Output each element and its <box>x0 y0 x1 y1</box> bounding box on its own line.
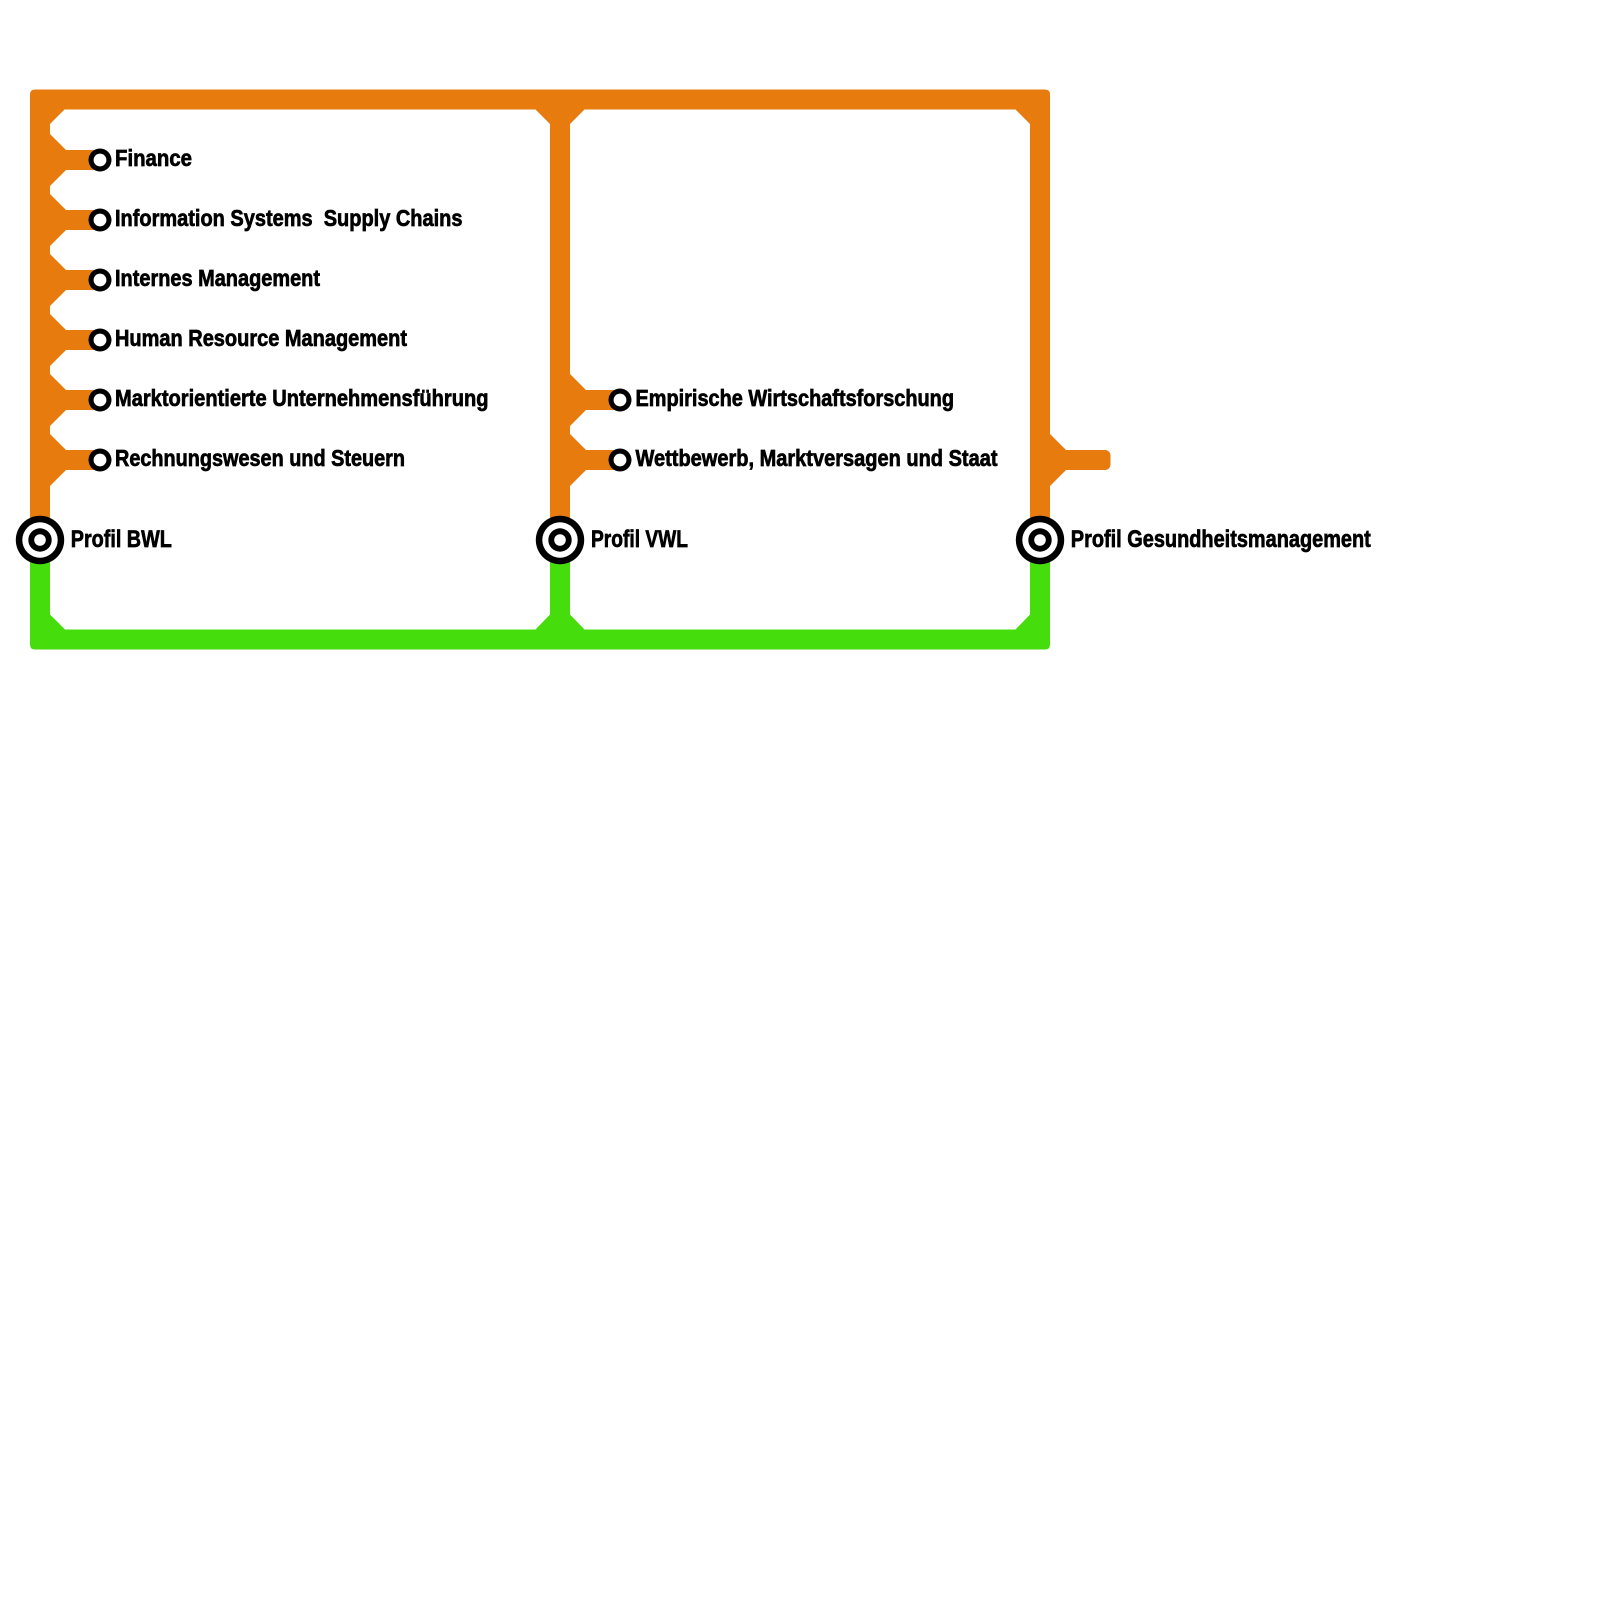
fillet top-right inner corner <box>1015 109 1032 126</box>
green middle vertical <box>550 535 570 635</box>
orange top band <box>30 90 1050 110</box>
stub Internes Management flare <box>49 253 66 307</box>
stub Rechnungswesen bar <box>50 450 100 470</box>
stub Marktorientierte bar <box>50 390 100 410</box>
svg-text:Marktorientierte Unternehmensf: Marktorientierte Unternehmensführung <box>115 385 489 411</box>
fillet top-left inner corner <box>49 109 66 126</box>
node Wettbewerb <box>609 449 632 472</box>
svg-text:Internes Management: Internes Management <box>115 265 320 291</box>
stub Internes Management bar <box>50 270 100 290</box>
node Human Resource <box>89 329 112 352</box>
node Marktorientierte <box>89 389 112 412</box>
stub Information Systems bar <box>50 210 100 230</box>
svg-text:Profil BWL: Profil BWL <box>71 526 172 553</box>
svg-text:Human Resource Management: Human Resource Management <box>115 325 407 351</box>
fillet middle junction left <box>535 109 552 126</box>
stub Rechnungswesen flare <box>49 433 66 487</box>
green fillet bottom-right <box>1015 614 1032 631</box>
stub Finance flare <box>49 133 66 187</box>
green left vertical <box>30 535 50 635</box>
stub Marktorientierte flare <box>49 373 66 427</box>
fillet middle junction right <box>569 109 586 126</box>
node Rechnungswesen <box>89 449 112 472</box>
svg-text:Finance: Finance <box>115 145 192 171</box>
stub Human Resource flare <box>49 313 66 367</box>
stub Wettbewerb bar <box>570 450 620 470</box>
stub Human Resource bar <box>50 330 100 350</box>
node Internes Management <box>89 269 112 292</box>
orange right vertical line <box>1030 105 1050 545</box>
green fillet bottom-left <box>49 614 66 631</box>
station Profil Gesundheitsmanagement <box>1016 516 1064 564</box>
right outward stub flare <box>1049 433 1066 487</box>
stub Finance bar <box>50 150 100 170</box>
svg-text:Empirische Wirtschaftsforschun: Empirische Wirtschaftsforschung <box>636 385 955 411</box>
station Profil BWL <box>16 516 64 564</box>
node Information Systems <box>89 209 112 232</box>
green right vertical <box>1030 535 1050 635</box>
right outward stub bar <box>1050 450 1111 470</box>
station Profil VWL <box>536 516 584 564</box>
green bottom line <box>30 630 1050 650</box>
svg-text:Profil VWL: Profil VWL <box>591 526 688 553</box>
node Empirische <box>609 389 632 412</box>
svg-text:Information Systems Supply Ch: Information Systems Supply Chains <box>115 205 463 231</box>
orange left vertical line <box>30 100 50 545</box>
stub Empirische bar <box>570 390 620 410</box>
svg-text:Profil Gesundheitsmanagement: Profil Gesundheitsmanagement <box>1071 526 1371 553</box>
green fillet VWL left <box>535 614 552 631</box>
stub Empirische flare <box>569 373 586 427</box>
green fillet VWL right <box>569 614 586 631</box>
svg-text:Rechnungswesen und Steuern: Rechnungswesen und Steuern <box>115 445 405 471</box>
stub Information Systems flare <box>49 193 66 247</box>
orange middle vertical line <box>550 105 570 545</box>
node Finance <box>89 149 112 172</box>
svg-text:Wettbewerb, Marktversagen und: Wettbewerb, Marktversagen und Staat <box>636 445 998 471</box>
stub Wettbewerb flare <box>569 433 586 487</box>
